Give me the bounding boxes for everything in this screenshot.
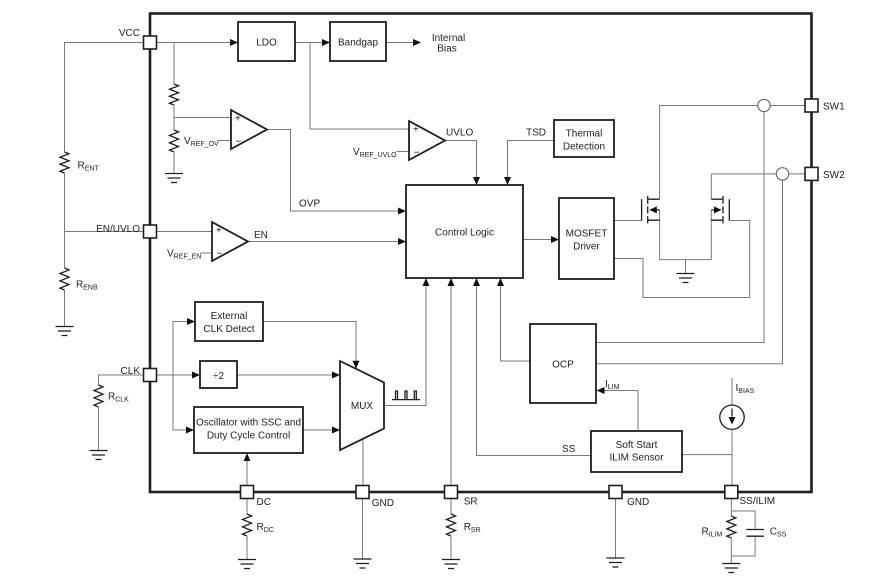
block OCP — [530, 324, 596, 403]
resistor OV divider bottom — [170, 130, 179, 152]
svg-text:LDO: LDO — [256, 38, 277, 49]
block Bandgap U2 — [330, 22, 386, 61]
pin SW1 — [805, 99, 818, 112]
wire VREF_OV stub — [218, 140, 232, 142]
wire CLK pin to RCLK — [99, 375, 144, 385]
current source IBIAS — [720, 405, 744, 429]
arrow ILIM into OCP — [597, 387, 605, 394]
op-amp UVLO comparator — [409, 121, 445, 160]
svg-text:EN/UVLO: EN/UVLO — [96, 224, 140, 235]
op-amp OVP comparator — [231, 110, 267, 149]
block Oscillator with SSC — [194, 407, 303, 453]
svg-text:TSD: TSD — [526, 128, 546, 139]
resistor RSR — [447, 514, 456, 536]
wire Soft Start to SS/ILIM node — [682, 454, 732, 456]
mux MUX — [340, 361, 384, 450]
resistor RENT — [60, 152, 69, 173]
wire GND pin 2 to ground — [615, 499, 617, 558]
resistor RENB — [60, 268, 69, 290]
chip boundary — [150, 14, 812, 493]
svg-text:OVP: OVP — [299, 199, 320, 210]
wire GND pin 1 to ground — [362, 499, 364, 559]
svg-text:External: External — [211, 311, 248, 322]
svg-text:Detection: Detection — [563, 142, 605, 153]
wire SW1 sense to OCP — [597, 112, 765, 343]
wire DC pin to RDC — [246, 499, 248, 515]
arrow OVP into Control Logic — [398, 208, 406, 215]
wire SS/ILIM pin to external RC — [731, 499, 755, 564]
svg-text:Bandgap: Bandgap — [338, 38, 378, 49]
pin SW2 — [805, 167, 818, 180]
arrow Oscillator into MUX — [332, 427, 340, 434]
pin EN/UVLO — [144, 225, 157, 238]
pin GND 2 — [609, 486, 622, 499]
ground below RENB — [56, 327, 74, 336]
svg-text:SR: SR — [464, 497, 478, 508]
arrow MUX clock into Control Logic — [423, 278, 430, 286]
transistor M1 NMOS — [642, 196, 660, 224]
clock waveform symbol — [392, 391, 420, 400]
pin GND 1 — [356, 486, 369, 499]
resistor RDC — [243, 514, 252, 536]
wire RENT bottom to EN/UVLO node — [64, 173, 66, 232]
svg-text:ILIM Sensor: ILIM Sensor — [610, 453, 665, 464]
wire divider mid node — [174, 105, 231, 130]
svg-text:VCC: VCC — [119, 28, 140, 39]
ground below RDC — [238, 560, 256, 569]
wire MOSFET Driver to M1 gate — [614, 220, 642, 222]
svg-text:MOSFET: MOSFET — [566, 229, 608, 240]
arrow OCP into Control Logic — [497, 278, 504, 286]
svg-text:GND: GND — [372, 498, 394, 509]
wire External CLK Detect to MUX — [263, 322, 356, 364]
resistor RCLK — [94, 385, 103, 407]
node divider top — [173, 43, 175, 85]
wire TSD Thermal Detection to Control Logic — [508, 141, 555, 181]
wire Control Logic to MOSFET Driver — [523, 239, 554, 241]
wire divide-by-2 to MUX — [237, 374, 335, 376]
wire CLK branch to External CLK Detect — [173, 322, 190, 376]
pin SS/ILIM — [725, 486, 738, 499]
arrow SR into Control Logic — [448, 278, 455, 286]
svg-text:Oscillator with SSC and: Oscillator with SSC and — [196, 418, 301, 429]
svg-text:Soft Start: Soft Start — [616, 440, 658, 451]
svg-text:MUX: MUX — [351, 401, 374, 412]
wire CLK pin to divide-by-2 — [144, 374, 196, 376]
svg-text:−: − — [414, 148, 420, 159]
block Soft Start ILIM Sensor — [591, 431, 682, 472]
pin SR — [445, 486, 458, 499]
svg-text:SS/ILIM: SS/ILIM — [740, 496, 776, 507]
wire RDC to ground — [246, 536, 248, 559]
block LDO U1 — [238, 22, 295, 61]
svg-text:Duty Cycle Control: Duty Cycle Control — [207, 431, 290, 442]
pin VCC — [144, 36, 157, 49]
svg-text:CLK Detect: CLK Detect — [203, 324, 254, 335]
arrow VCC to LDO — [230, 39, 238, 46]
svg-text:+: + — [216, 226, 222, 237]
wire LDO output to UVLO comparator — [310, 43, 409, 130]
wire M2 drain to SW2 — [711, 174, 805, 199]
wire RSR to ground — [450, 536, 452, 559]
svg-text:UVLO: UVLO — [446, 128, 473, 139]
wire Bandgap to Internal Bias — [386, 42, 416, 44]
resistor OV divider top — [170, 84, 179, 105]
ground below GND pin 1 — [354, 559, 372, 568]
node SW2 test point — [776, 168, 788, 180]
wire ILIM Soft Start to OCP — [602, 391, 638, 432]
svg-text:−: − — [217, 249, 223, 260]
wire OVP comparator output to Control Logic — [267, 130, 401, 212]
block Control Logic — [406, 185, 523, 278]
svg-text:Driver: Driver — [573, 242, 600, 253]
arrow CLK to divide-by-2 — [192, 372, 200, 379]
wire SS Soft Start to Control Logic — [477, 283, 592, 456]
svg-text:EN: EN — [254, 230, 268, 241]
svg-text:SW1: SW1 — [823, 102, 845, 113]
wire CLK branch to Oscillator — [173, 375, 189, 430]
svg-text:+: + — [235, 114, 241, 125]
wire VREF_UVLO stub — [397, 151, 410, 153]
svg-text:Thermal: Thermal — [566, 129, 603, 140]
svg-text:Control Logic: Control Logic — [435, 228, 494, 239]
wire RCLK to ground — [98, 407, 100, 450]
node SW1 test point — [758, 99, 770, 111]
ground below GND pin 2 — [607, 558, 625, 567]
op-amp EN comparator — [212, 222, 248, 261]
svg-text:OCP: OCP — [552, 360, 574, 371]
capacitor CSS — [746, 530, 764, 537]
arrow DC into Oscillator — [244, 453, 251, 461]
transistor M2 NMOS — [711, 196, 729, 224]
svg-text:Bias: Bias — [437, 44, 456, 55]
arrow CLK to Oscillator — [186, 427, 194, 434]
arrow CLK to External CLK Detect — [187, 318, 195, 325]
ground below divider — [165, 174, 183, 183]
wire OCP to Control Logic — [501, 283, 531, 361]
wire Oscillator to MUX — [303, 429, 335, 431]
wire SW2 sense to OCP — [597, 180, 783, 364]
wire MOSFET Driver to M2 gate — [614, 221, 750, 298]
wire EN comparator output to Control Logic — [249, 241, 401, 243]
wire IBIAS stub — [731, 378, 733, 405]
ground below RILIM — [722, 564, 740, 573]
wire LDO to Bandgap — [295, 42, 325, 44]
block MOSFET Driver — [559, 198, 614, 279]
block Thermal Detection — [554, 120, 614, 157]
arrow divide-by-2 into MUX — [332, 372, 340, 379]
wire divider bottom to ground — [173, 152, 175, 173]
svg-text:÷2: ÷2 — [213, 371, 224, 382]
arrow TSD into Control Logic — [504, 177, 511, 185]
wire EN/UVLO node to RENB — [64, 232, 66, 269]
ground below MOSFET rail — [677, 274, 695, 283]
pin DC — [241, 486, 254, 499]
wire MUX output to Control Logic — [384, 283, 426, 406]
ground below RSR — [442, 560, 460, 569]
arrow Control Logic to MOSFET Driver — [551, 236, 559, 243]
wire MUX bottom to GND pin — [362, 439, 364, 486]
svg-text:CLK: CLK — [121, 366, 141, 377]
svg-text:SW2: SW2 — [823, 170, 845, 181]
arrow EN into Control Logic — [398, 238, 406, 245]
arrow External CLK Detect into MUX — [353, 361, 360, 369]
svg-text:Internal: Internal — [432, 33, 465, 44]
svg-text:+: + — [413, 125, 419, 136]
arrow SS into Control Logic — [473, 278, 480, 286]
wire VCC pin to LDO — [144, 42, 234, 44]
svg-text:−: − — [236, 137, 242, 148]
svg-text:DC: DC — [257, 497, 271, 508]
wire SR pin to RSR — [450, 499, 452, 515]
wire VREF_EN stub — [201, 252, 213, 254]
wire RENB to ground — [64, 290, 66, 326]
wire VCC pin to RENT top — [65, 43, 144, 153]
ground below RCLK — [90, 451, 108, 460]
wire M2 source down — [710, 210, 712, 260]
svg-text:GND: GND — [627, 497, 649, 508]
wire M1 drain to SW1 — [660, 106, 805, 200]
wire SR pin to Control Logic — [450, 283, 452, 486]
wire current source to SS/ILIM pin — [731, 429, 733, 485]
block External CLK Detect — [195, 302, 263, 341]
wire EN/UVLO node to EN comparator — [65, 231, 213, 233]
wire ground rail stem — [685, 260, 687, 273]
wire DC pin to Oscillator — [246, 458, 248, 486]
arrow LDO to Bandgap — [322, 39, 330, 46]
svg-text:SS: SS — [562, 444, 576, 455]
wire M1 source to ground rail — [660, 210, 712, 260]
block divide-by-2 — [200, 361, 237, 388]
arrow UVLO into Control Logic — [473, 177, 480, 185]
pin CLK — [144, 369, 157, 382]
wire UVLO output to Control Logic — [445, 141, 477, 181]
resistor RILIM — [727, 516, 736, 538]
arrow Bandgap to Internal Bias — [413, 39, 421, 46]
